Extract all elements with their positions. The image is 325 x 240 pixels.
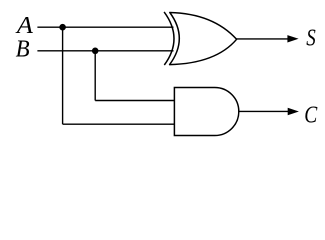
junction dot on wire B (92, 48, 99, 55)
svg-text:C: C (304, 102, 318, 128)
AND gate U2 (174, 88, 238, 136)
arrowhead C (288, 108, 299, 115)
wire XOR output to S (236, 38, 290, 40)
wire horizontal to AND top input (95, 100, 174, 102)
svg-text:B: B (16, 36, 30, 62)
arrowhead S (287, 35, 298, 42)
wire A horizontal to XOR input (37, 26, 173, 28)
svg-text:A: A (15, 13, 34, 39)
wire vertical from A junction down (62, 27, 64, 124)
wire horizontal to AND bottom input (63, 123, 175, 125)
svg-text:S: S (306, 25, 316, 51)
wire AND output to C (238, 110, 290, 112)
wire vertical from B junction down (94, 51, 96, 101)
junction dot on wire A (59, 24, 66, 31)
wire B horizontal to XOR input (37, 50, 173, 52)
XOR gate U1 body (170, 13, 237, 65)
XOR gate U1 input arc (164, 12, 174, 65)
